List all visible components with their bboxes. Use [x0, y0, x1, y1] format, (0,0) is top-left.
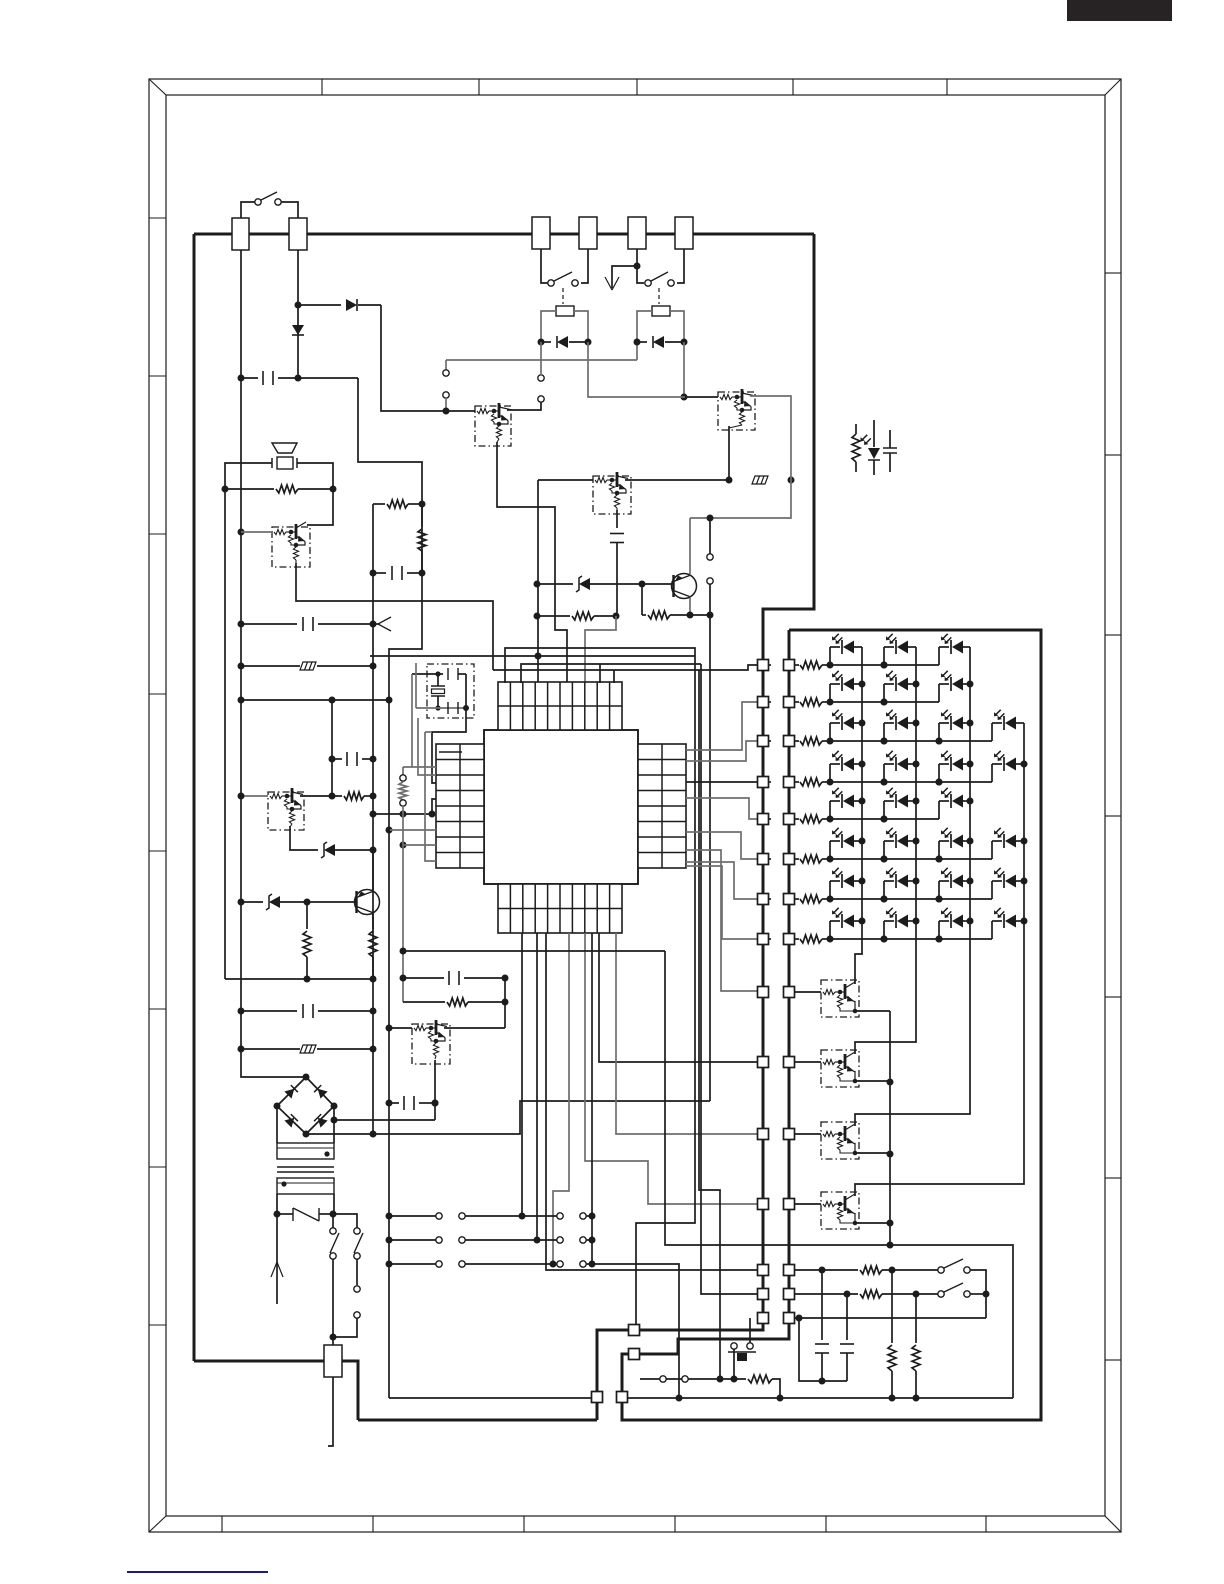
IC U1 right pin block [638, 744, 686, 868]
relay RY2 actuator dashed [658, 288, 660, 304]
transistor Q12 digital [821, 1122, 859, 1159]
capacitor C9 [821, 1270, 823, 1340]
capacitor C1 row [238, 375, 245, 382]
transistor Q13 digital [821, 1192, 859, 1229]
bold bus A top rail [194, 233, 814, 236]
capacitor C10 [846, 1294, 848, 1340]
wire row S3 [758, 1313, 769, 1324]
connector pin row6 bus B [784, 854, 795, 865]
switch row S2 [758, 1289, 769, 1300]
led row3 line [830, 740, 992, 742]
connector pin dtr4 bus B [784, 1199, 795, 1210]
transistor Q1 digital [446, 410, 475, 412]
wire icb x546 [546, 933, 758, 1270]
crystal X1 box [427, 664, 474, 718]
switch row S1 [758, 1265, 769, 1276]
wire led row6 feed [686, 832, 758, 859]
jack arrow [373, 623, 378, 625]
LED D32 [883, 723, 885, 741]
wire led row5 feed [686, 798, 758, 819]
transistor Q4 [672, 574, 697, 599]
wire Q4 collector [689, 518, 691, 574]
LED D83 [938, 921, 940, 939]
connector CN5 [628, 217, 646, 249]
bold bus A left vertical [193, 234, 196, 1361]
zener ZD3 row [238, 899, 245, 906]
resistor R8 vertical [372, 914, 374, 929]
wire pin861 gray [425, 732, 436, 861]
bridge tap wire [331, 1117, 338, 1124]
wire button row [731, 1376, 738, 1383]
IC U1 bottom pin block [498, 884, 622, 933]
connector pin dtr1 bus A [758, 987, 769, 998]
wire icb x585 [585, 933, 758, 1204]
wire Q6 base [241, 795, 268, 797]
LED D72 [883, 881, 885, 899]
LED D64 [991, 841, 993, 859]
resistor R7 vertical [306, 902, 308, 929]
wire net480 left [538, 479, 593, 481]
connector pins P1 [445, 360, 447, 370]
wire pin stub 799 [432, 799, 436, 814]
wire CN3 down [541, 249, 548, 283]
wire CN4 down [581, 249, 588, 283]
wire net670 drop [699, 670, 720, 1379]
capacitor C2 under Q2 [616, 510, 618, 528]
LED D62 [883, 841, 885, 859]
LED D84 [991, 921, 993, 939]
frame corner miters [149, 79, 166, 95]
capacitor C5 row [329, 756, 336, 763]
connector pin row8 bus A [758, 934, 769, 945]
led row6 line [830, 858, 992, 860]
frame tick marks left [149, 217, 166, 219]
wire D1 down to DTR-A input [381, 305, 446, 411]
connector CN1 [232, 218, 249, 250]
resistor R10 led row [794, 664, 799, 666]
power entry module [324, 1345, 342, 1377]
wire led row2 feed [686, 702, 758, 750]
bottom rail left [389, 1397, 592, 1399]
relay RY1 contact [548, 280, 554, 286]
wire icb x569 [553, 933, 569, 1264]
ferrite bead FB3 row [238, 1046, 245, 1053]
crystal X1 [435, 671, 440, 676]
LED D33 [938, 723, 940, 741]
fuse F1 [274, 1211, 281, 1218]
wire Q13 output [853, 1222, 890, 1224]
connector CN3 [532, 217, 550, 249]
bridge diode d [318, 1118, 328, 1128]
black index tab [1067, 0, 1172, 21]
IC U1 top pin block [498, 682, 622, 730]
capacitor C6 row [238, 1008, 245, 1015]
wire R4 jog to IC [585, 616, 616, 682]
wire icb x599 [599, 933, 758, 1062]
wire row 814 [370, 811, 377, 818]
frame tick marks bottom [221, 1516, 223, 1532]
diode D1 to right [298, 304, 341, 306]
wire to Q5 collector [307, 489, 333, 525]
wire icb x522 [521, 933, 523, 1216]
connector CN row 1 [386, 1213, 393, 1220]
LED D12 [883, 647, 885, 665]
LED D43 [938, 764, 940, 782]
relay RY2 coil loop [637, 311, 652, 360]
capacitor C7 row [386, 1100, 393, 1107]
connector pin row7 bus A [758, 894, 769, 905]
wire crystal to IC pins [411, 674, 413, 767]
wire Q3 loop [750, 396, 791, 480]
zener ZD2 row [370, 847, 377, 854]
wire icb x537 [536, 933, 538, 1240]
LED D34 [991, 723, 993, 741]
wire speaker left [225, 463, 272, 979]
LED D82 [883, 921, 885, 939]
wire speaker right [297, 463, 333, 489]
connector pin dtr3 bus A [758, 1129, 769, 1140]
connector CN row 3 [386, 1261, 393, 1268]
wire Q5 base [238, 529, 245, 536]
LED D23 [938, 684, 940, 702]
node C2 branch [295, 302, 302, 309]
connector pin row3 bus A [758, 736, 769, 747]
frame tick marks right [1105, 272, 1121, 274]
resistor R22 [748, 1375, 772, 1383]
resistor R20 vertical [891, 1270, 893, 1343]
LED D52 [883, 801, 885, 819]
LED cathode bus 2 [855, 647, 916, 1054]
relay RY2 coil [652, 306, 670, 316]
wire CN6 down [677, 249, 684, 283]
wire pin845 gray [400, 842, 407, 849]
connector pin dtr1 bus B [784, 987, 795, 998]
wire Q4 emitter [689, 598, 691, 615]
bottom rail right [777, 1395, 784, 1402]
wire net480 drop [537, 480, 539, 682]
bridge diode c [284, 1118, 294, 1128]
wire Q1 emitter [497, 442, 567, 682]
LED D44 [991, 764, 993, 782]
capacitor C4 row [238, 621, 245, 628]
legend resistor [855, 424, 857, 434]
wire R8 feed [686, 866, 758, 939]
wire net664 bridge [521, 664, 701, 683]
transistor Q3 digital [718, 392, 755, 430]
wire x710 feed [709, 615, 711, 1101]
wire Q10 output [853, 1010, 890, 1012]
wire row 979 [304, 976, 311, 983]
led row2 line [830, 701, 939, 703]
bold bus B LED block border [622, 630, 1041, 1420]
LED cathode bus 4 [855, 723, 1024, 1196]
connector pins P2 [709, 518, 711, 554]
transistor Q6 digital [268, 792, 304, 830]
gray return wire RY1 to RY2 [446, 359, 637, 361]
led row5 line [830, 818, 939, 820]
transistor Q2 digital [593, 476, 631, 514]
resistor R17 led row [794, 938, 799, 940]
LED cathode bus 3 [855, 647, 970, 1126]
wire Q3 collector down [728, 426, 730, 480]
resistor R11 led row [794, 701, 799, 703]
bold bus A right drop [597, 234, 814, 1419]
resistor R2 row [373, 503, 385, 505]
wire dc rail right [403, 950, 665, 952]
transistor Q10 digital [821, 980, 859, 1017]
resistor R1 row [222, 486, 229, 493]
led row7 line [830, 898, 992, 900]
wire Q11 output [853, 1080, 890, 1082]
wire row1 feed [493, 665, 758, 670]
legend LED [873, 420, 875, 447]
wire Q12 output [853, 1152, 890, 1154]
LED cathode bus 1 [855, 647, 862, 984]
transistor Q11 digital [821, 1050, 859, 1087]
power switch SW2 [332, 1214, 334, 1228]
connector squares bottom [592, 1392, 603, 1403]
bridge rectifier BD1 [303, 1074, 310, 1081]
connector CN2 [289, 218, 307, 250]
led row8 line [830, 938, 992, 940]
LED D31 [829, 723, 831, 741]
wire CN1 down bus [241, 250, 306, 1077]
relay RY2 contact [645, 280, 651, 286]
jumper resistor RJ1 [403, 766, 436, 768]
LED D13 [938, 647, 940, 665]
wire icb x616 [616, 933, 758, 1134]
connector pin row1 bus A [758, 660, 769, 671]
LED D42 [883, 764, 885, 782]
bold bus A bottom rail [358, 1419, 597, 1422]
capacitor C8 [403, 977, 444, 979]
wire net518 [690, 480, 791, 518]
node 953 [400, 948, 407, 955]
wire net648 drop [636, 656, 695, 1325]
connector pin row1 bus B [784, 660, 795, 671]
wire cap commons [819, 1378, 826, 1385]
LED D73 [938, 881, 940, 899]
LED D51 [829, 801, 831, 819]
resistor R4 row [534, 613, 541, 620]
resistor R16 led row [794, 898, 799, 900]
resistor R3 vertical [421, 504, 423, 527]
connector pin row8 bus B [784, 934, 795, 945]
LED D61 [829, 841, 831, 859]
connector pin dtr3 bus B [784, 1129, 795, 1140]
wire row3 extension [592, 1264, 679, 1398]
zener ZD1 row [534, 581, 541, 588]
wire net648 staple [505, 648, 695, 683]
connector pin row6 bus A [758, 854, 769, 865]
wire led row4 feed [686, 781, 758, 783]
LED D41 [829, 764, 831, 782]
connector pin row5 bus B [784, 814, 795, 825]
diode D3 across RY1 [538, 339, 545, 346]
transistor Q7 [355, 890, 380, 915]
wire RY2 right leg down [683, 342, 685, 397]
wire net664 drop [701, 664, 758, 1294]
connector pin row7 bus B [784, 894, 795, 905]
transistor Q5 digital [272, 527, 310, 567]
wire DTR1 feed [686, 850, 758, 991]
wire CN5 down [637, 249, 644, 283]
wire Q7 collector [372, 850, 374, 891]
wire led row7 feed [686, 862, 758, 899]
switch SW2 second gang [356, 1259, 358, 1285]
bus x373 vertical [372, 504, 374, 1134]
wire led row3 feed [686, 741, 758, 761]
resistor R12 led row [794, 740, 799, 742]
switch S1 top-left [241, 202, 255, 218]
wire x332 [331, 700, 333, 796]
bridge diode b [318, 1089, 328, 1099]
wire row 700 [238, 697, 245, 704]
wire bridge rail [370, 1131, 377, 1138]
diode D4 across RY2 [634, 339, 641, 346]
wire CN2 down [297, 250, 299, 378]
connector pin row5 bus A [758, 814, 769, 825]
border frame inner [166, 95, 1105, 1516]
connector CN4 [579, 217, 597, 249]
LED D74 [991, 881, 993, 899]
connector pin row2 bus A [758, 697, 769, 708]
LED D21 [829, 684, 831, 702]
diode D2 down [292, 325, 304, 335]
LED D71 [829, 881, 831, 899]
frame tick marks top [321, 79, 323, 95]
bridge diode a [284, 1089, 294, 1099]
relay RY1 coil [556, 306, 574, 316]
ferrite bead FB1 [752, 476, 768, 484]
connector pin dtr4 bus A [758, 1199, 769, 1210]
IC U1 left pin block [436, 744, 484, 868]
connector pin dtr2 bus A [758, 1057, 769, 1068]
wire Q8 emitter [434, 1060, 436, 1120]
resistor R14 led row [794, 818, 799, 820]
resistor R6 row [329, 793, 336, 800]
ferrite bead FB2 row [238, 663, 245, 670]
relay RY1 coil loop [541, 311, 556, 342]
bold bus A power entry segment [194, 1360, 324, 1363]
footer rule [127, 1571, 268, 1573]
LED D11 [829, 647, 831, 665]
wire zener node down [641, 584, 643, 615]
wire RY1 right leg down [588, 342, 685, 397]
wire pin775 gray [418, 718, 436, 775]
border frame outer [149, 79, 1121, 1532]
connector pin row4 bus A [758, 777, 769, 788]
resistor R5 [642, 614, 646, 616]
push button SW3 [731, 1343, 737, 1349]
wire to resistor ladder [358, 378, 422, 573]
connector CN6 [675, 217, 693, 249]
LED D53 [938, 801, 940, 819]
mains lead with arrow [276, 1214, 278, 1304]
connector CN row 2 [386, 1237, 393, 1244]
arrow test point [612, 266, 637, 288]
legend capacitor [889, 430, 891, 448]
wire net649 [389, 573, 422, 700]
resistor R9 [502, 999, 509, 1006]
wire icb x592 [591, 933, 593, 1264]
LED D22 [883, 684, 885, 702]
resistor R13 led row [794, 781, 799, 783]
wire net480 right [625, 479, 729, 481]
LED D81 [829, 921, 831, 939]
crystal load caps [412, 673, 443, 675]
relay RY1 actuator dashed [562, 288, 564, 304]
wire net664 pin taps [599, 664, 601, 683]
resistor R15 led row [794, 858, 799, 860]
wire Q5 emitter [296, 563, 493, 670]
transformer T1 [276, 1106, 278, 1143]
LED D63 [938, 841, 940, 859]
transistor Q8 digital [386, 1025, 393, 1032]
connector pin dtr2 bus B [784, 1057, 795, 1068]
IC U1 body [484, 730, 638, 884]
wire DTR output bus [889, 1011, 891, 1245]
connector pin row4 bus B [784, 777, 795, 788]
wire net656 [535, 653, 542, 660]
connector pin row3 bus B [784, 736, 795, 747]
IC U1 pin1 mark [439, 751, 462, 753]
wire pin830 [386, 827, 393, 834]
wire Q1 collector to pins [507, 402, 541, 410]
led row4 line [830, 781, 992, 783]
led row1 line [830, 664, 939, 666]
resistor R21 vertical [915, 1294, 917, 1343]
connector pin row2 bus B [784, 697, 795, 708]
speaker SP1 [272, 443, 297, 453]
capacitor C3 row [370, 570, 377, 577]
